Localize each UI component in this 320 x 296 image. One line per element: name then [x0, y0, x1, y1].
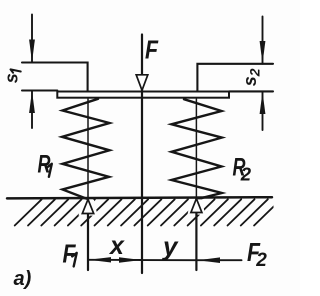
svg-text:2: 2 [240, 164, 252, 185]
wire reference line right lower [229, 90, 273, 92]
force F1 open arrowhead [82, 199, 93, 213]
svg-text:y: y [161, 231, 179, 261]
svg-text:s: s [2, 73, 22, 83]
force F line [141, 35, 143, 76]
force F2 open arrowhead [191, 199, 202, 213]
dimension y line [142, 259, 196, 261]
svg-text:s2: s2 [240, 68, 263, 86]
svg-text:x: x [108, 232, 125, 260]
ground hatching [15, 199, 281, 225]
force F1 arrow halo [79, 200, 98, 216]
dimension s1 arrowhead up [29, 91, 35, 113]
wire reference line left lower [22, 89, 57, 91]
force F2 arrow halo [188, 199, 206, 214]
dimension x line [88, 259, 142, 261]
wire reference step left (unloaded position) [22, 63, 88, 92]
force F1 line [87, 214, 89, 271]
label s1 [2, 69, 22, 83]
force F2 line [195, 213, 197, 271]
svg-text:F: F [145, 35, 159, 65]
node axis of spring R1 [87, 99, 89, 199]
dimension x arrowhead left [89, 257, 111, 262]
wire center line below F [141, 89, 143, 273]
bar (rigid plate) [57, 92, 229, 98]
dimension s1 arrowhead down [29, 40, 35, 63]
dimension s2 arrowhead down [260, 41, 266, 64]
wire reference step right (unloaded position) [197, 64, 273, 92]
node axis of spring R2 [195, 99, 197, 199]
dimension s2 arrowhead up [260, 92, 266, 114]
spring R2 [172, 99, 222, 199]
svg-text:2: 2 [255, 250, 267, 271]
force F open arrowhead [136, 75, 148, 91]
dimension x arrowhead right [119, 257, 141, 262]
dimension s1 line lower stub [31, 91, 33, 129]
dimension s1 line upper [31, 15, 33, 63]
spring R1 [62, 99, 110, 200]
svg-text:a): a) [14, 268, 32, 290]
force F2 label arrow [198, 259, 242, 261]
dimension s2 line lower stub [262, 91, 264, 130]
dimension s2 line upper [262, 17, 264, 64]
ground line [7, 197, 272, 198]
